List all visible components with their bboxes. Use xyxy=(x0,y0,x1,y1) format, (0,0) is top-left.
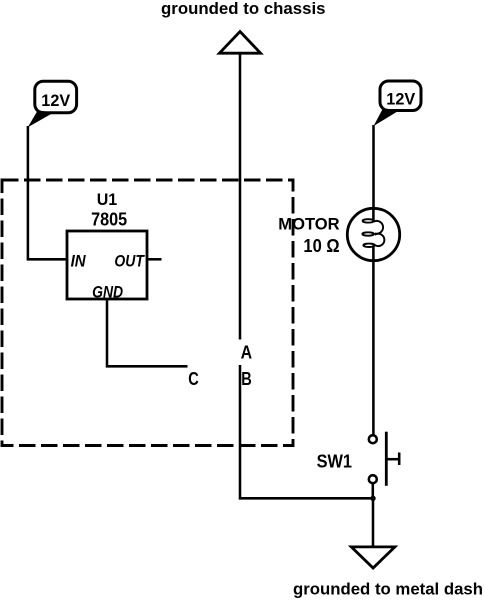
regulator U1 reference label xyxy=(97,190,118,209)
wire: switch bottom to junction xyxy=(372,483,375,498)
svg-text:IN: IN xyxy=(71,252,87,270)
switch SW1 bottom contact circle xyxy=(369,475,377,483)
svg-text:OUT: OUT xyxy=(114,252,145,270)
U1 value label 7805 xyxy=(91,209,127,230)
svg-text:MOTOR: MOTOR xyxy=(278,215,339,234)
svg-text:grounded to metal dash: grounded to metal dash xyxy=(293,580,483,599)
svg-text:B: B xyxy=(241,368,252,389)
svg-text:12V: 12V xyxy=(386,90,416,109)
ground symbol (down triangle) xyxy=(351,547,395,568)
wire: GND pin down and right to node C xyxy=(107,299,188,366)
wire: motor top lead inside circle xyxy=(372,208,375,221)
svg-text:A: A xyxy=(241,341,253,362)
chassis ground symbol (up triangle) xyxy=(219,32,260,54)
motor name label MOTOR xyxy=(278,215,339,234)
wire: node B down and right to switch bottom junction xyxy=(240,365,373,498)
svg-text:grounded to chassis: grounded to chassis xyxy=(161,0,326,18)
svg-text:GND: GND xyxy=(92,284,123,302)
voltage label 12V (left) xyxy=(28,81,77,127)
node C label xyxy=(188,368,199,389)
switch SW1 actuator stem xyxy=(386,458,399,461)
caption: grounded to chassis xyxy=(161,0,326,18)
wire: left 12V to IN pin xyxy=(28,126,67,259)
svg-text:12V: 12V xyxy=(41,91,71,110)
motor coil xyxy=(362,219,384,247)
wire: right 12V down to motor xyxy=(372,125,375,221)
svg-text:7805: 7805 xyxy=(91,209,127,230)
switch SW1 reference label xyxy=(317,451,352,471)
caption: grounded to metal dash xyxy=(293,580,483,599)
regulator U1 body xyxy=(67,231,147,299)
svg-text:10 Ω: 10 Ω xyxy=(303,236,339,256)
switch SW1 actuator bar xyxy=(385,432,388,486)
dashed enclosure box xyxy=(2,180,293,446)
switch SW1 actuator handle xyxy=(398,453,401,466)
node B label xyxy=(241,368,252,389)
node A label xyxy=(241,341,253,362)
pin label IN xyxy=(71,252,87,270)
wire: chassis ground down to node A xyxy=(239,54,242,340)
motor M1 body (circle) xyxy=(347,208,399,260)
voltage label 12V (right) xyxy=(374,81,421,126)
svg-text:U1: U1 xyxy=(97,190,118,209)
svg-text:C: C xyxy=(188,368,199,389)
wire: junction down to ground xyxy=(372,498,375,546)
wire: OUT pin stub xyxy=(147,258,162,261)
pin label OUT xyxy=(114,252,145,270)
pin label GND xyxy=(92,284,123,302)
junction node dot xyxy=(370,496,375,501)
motor value label 10 ohm xyxy=(303,236,339,256)
svg-text:SW1: SW1 xyxy=(317,451,352,471)
wire: motor bottom lead down to switch xyxy=(372,245,375,434)
switch SW1 top contact circle xyxy=(369,435,377,443)
